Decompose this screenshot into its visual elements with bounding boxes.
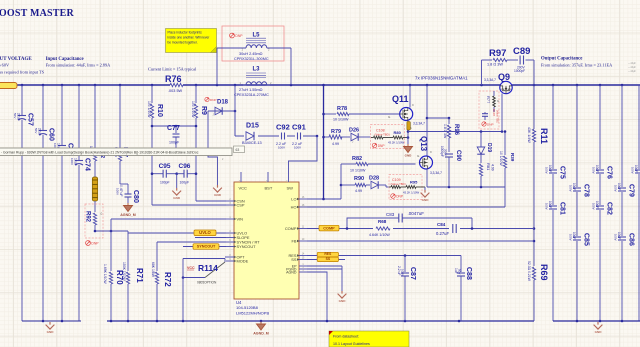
svg-text:R76: R76 — [165, 74, 182, 84]
transistor Q9 — [500, 81, 512, 93]
svg-text:30uH 2.45mΩ: 30uH 2.45mΩ — [239, 52, 263, 56]
svg-text:VCC: VCC — [239, 185, 248, 190]
svg-text:R92: R92 — [85, 211, 91, 223]
resistor R81 — [479, 164, 482, 176]
net label RES — [317, 252, 338, 256]
transistor Q13 — [426, 85, 428, 156]
svg-text:C74: C74 — [84, 158, 91, 171]
resistor R37 — [119, 85, 121, 148]
svg-text:CSP: CSP — [237, 203, 245, 208]
svg-text:68K 1/8W: 68K 1/8W — [151, 262, 155, 278]
svg-text:100V: 100V — [614, 234, 618, 241]
svg-text:DNP: DNP — [396, 194, 403, 198]
capacitor C89 — [519, 56, 521, 65]
svg-text:MODE: MODE — [237, 259, 249, 264]
svg-text:10 1/10W: 10 1/10W — [350, 169, 366, 173]
wire UVLO net — [128, 232, 226, 234]
inductor/fuse gold body — [94, 161, 96, 177]
wire SYNCIN/RT — [157, 241, 226, 243]
net label UVLO — [194, 230, 216, 236]
svg-text:8V to 60V: 8V to 60V — [0, 62, 10, 67]
resistor R11 — [533, 85, 535, 129]
svg-text:C81: C81 — [559, 202, 566, 215]
svg-text:50V: 50V — [34, 128, 38, 133]
net label SS — [317, 257, 338, 262]
svg-text:43K 1/4W: 43K 1/4W — [527, 127, 531, 143]
svg-text:.0047uF: .0047uF — [408, 211, 425, 216]
svg-text:R114: R114 — [198, 263, 218, 273]
svg-text:R81: R81 — [486, 163, 491, 171]
svg-text:AGND: AGND — [286, 271, 297, 275]
tooltip file path — [0, 148, 232, 156]
svg-text:10.1 Layout Guidelines: 10.1 Layout Guidelines — [333, 342, 370, 346]
ground right — [594, 322, 603, 329]
svg-text:GND: GND — [214, 193, 222, 197]
resistor R82 — [341, 163, 356, 165]
svg-text:R80: R80 — [394, 130, 402, 135]
svg-text:C89: C89 — [513, 46, 530, 57]
wire CSN — [196, 200, 226, 202]
svg-text:RES: RES — [324, 252, 332, 256]
svg-text:From datasheet:: From datasheet: — [333, 335, 359, 339]
svg-text:R97: R97 — [489, 48, 506, 59]
svg-text:SS: SS — [291, 257, 297, 262]
svg-text:4.99: 4.99 — [332, 142, 339, 146]
svg-text:SYNCOUT: SYNCOUT — [237, 244, 257, 249]
svg-text:100V: 100V — [70, 158, 74, 165]
resistor R39 — [504, 132, 506, 156]
svg-text:C83: C83 — [386, 212, 395, 217]
resistor R72 — [156, 242, 158, 271]
svg-text:C84: C84 — [437, 222, 446, 227]
wire main input/output rail — [0, 84, 500, 86]
svg-text:L5: L5 — [253, 33, 261, 39]
diode D15 — [244, 131, 258, 141]
svg-text:R71: R71 — [135, 268, 144, 283]
svg-text:C80: C80 — [132, 190, 139, 203]
svg-text:100V: 100V — [278, 146, 285, 150]
capacitor C76 — [595, 169, 605, 174]
resistor R10 — [151, 85, 153, 103]
svg-text:3,3,3A,7: 3,3,3A,7 — [484, 78, 496, 82]
wire FB — [307, 240, 534, 242]
svg-text:100 1/10W: 100 1/10W — [147, 101, 151, 118]
capacitor C88 — [460, 256, 462, 273]
svg-text:C91: C91 — [292, 123, 306, 132]
wire HO riser — [504, 187, 506, 207]
resistor R78 — [324, 113, 337, 115]
resistor R79 — [324, 136, 330, 138]
svg-text:50V: 50V — [458, 269, 462, 274]
resistor R71 — [127, 233, 129, 271]
resistor R68 — [373, 224, 393, 232]
resistor R97 snubber — [481, 60, 483, 85]
svg-text:INPUT VOLTAGE: INPUT VOLTAGE — [0, 57, 32, 62]
capacitor C83 branch — [347, 218, 399, 229]
svg-text:inside one another. Will never: inside one another. Will never — [168, 36, 211, 40]
svg-text:C82: C82 — [606, 202, 613, 215]
resistor R12 — [94, 85, 96, 148]
svg-text:HO: HO — [291, 205, 297, 210]
svg-text:100V: 100V — [569, 185, 573, 192]
ground D18 anode — [208, 111, 218, 185]
svg-text:7x IPF036N15NMGATMA1: 7x IPF036N15NMGATMA1 — [415, 76, 468, 81]
capacitor C108 / resistor R80 (DNP box) — [371, 125, 405, 149]
svg-text:100pF: 100pF — [160, 181, 170, 185]
svg-text:100V: 100V — [569, 234, 573, 241]
svg-text:C77: C77 — [167, 125, 180, 132]
svg-text:Current Limit = 15A typical: Current Limit = 15A typical — [148, 67, 197, 72]
capacitor C95 — [152, 173, 163, 175]
svg-text:150K 1/10W: 150K 1/10W — [122, 262, 126, 281]
resistor R69 — [532, 267, 535, 280]
svg-text:- Gorman Rupp - 600W 2NTG8 wit: - Gorman Rupp - 600W 2NTG8 with Load Dum… — [1, 151, 199, 155]
svg-text:C96: C96 — [179, 163, 191, 170]
svg-text:CPEX3231A-270MC: CPEX3231A-270MC — [234, 93, 269, 97]
svg-text:C75: C75 — [559, 166, 566, 179]
resistor R96 snubber — [427, 117, 449, 119]
wire D15 branch — [234, 85, 236, 136]
svg-text:SW: SW — [287, 185, 294, 190]
diode D28 — [366, 184, 370, 186]
wire SW node — [323, 85, 325, 199]
resistor R70 — [110, 231, 112, 271]
diode D19 — [480, 132, 482, 148]
svg-text:100V: 100V — [592, 167, 596, 174]
svg-text:R72: R72 — [163, 272, 172, 287]
svg-text:200V: 200V — [444, 149, 448, 156]
svg-text:D: D — [412, 103, 414, 107]
svg-text:AGND_M: AGND_M — [253, 332, 269, 336]
svg-text:1000pF: 1000pF — [514, 69, 525, 73]
svg-text:100V: 100V — [401, 269, 405, 276]
svg-text:0805OPTION: 0805OPTION — [197, 281, 217, 285]
svg-text:100V: 100V — [592, 203, 596, 210]
svg-text:43.2K 1/10W: 43.2K 1/10W — [388, 141, 405, 145]
capacitor C74 — [78, 85, 80, 161]
svg-text:4.64K 1/10W: 4.64K 1/10W — [369, 233, 390, 237]
wire gate riser — [340, 164, 342, 199]
svg-text:D28: D28 — [369, 176, 379, 182]
svg-text:R68: R68 — [378, 219, 387, 224]
svg-text:C95: C95 — [159, 163, 171, 170]
capacitor C96 — [177, 173, 184, 175]
net label SYNCOUT — [193, 244, 219, 250]
svg-text:GND: GND — [47, 330, 55, 334]
svg-text:C88: C88 — [465, 267, 472, 280]
port VIN (yellow) — [0, 83, 17, 89]
svg-text:R82: R82 — [352, 156, 362, 162]
svg-text:—10µF: —10µF — [628, 62, 636, 65]
svg-text:100pF: 100pF — [180, 181, 190, 185]
svg-text:C76: C76 — [606, 166, 613, 179]
svg-text:D26: D26 — [349, 128, 359, 134]
svg-text:R78: R78 — [337, 106, 347, 112]
svg-text:52.3Ω 0.21W: 52.3Ω 0.21W — [527, 261, 531, 282]
wire BST bootstrap — [316, 135, 319, 138]
capacitor C85 — [572, 236, 582, 241]
svg-text:3,3,3A,7: 3,3,3A,7 — [413, 122, 425, 126]
wire bottom right gnd rail — [553, 320, 640, 322]
capacitor C109 / resistor R95 (DNP box) — [389, 175, 422, 200]
capacitor C75 — [548, 169, 558, 174]
svg-text:100pF: 100pF — [169, 141, 180, 145]
svg-text:D19: D19 — [486, 143, 492, 152]
svg-text:BST: BST — [265, 185, 273, 190]
svg-text:GND: GND — [405, 154, 413, 158]
wire AGND pin to rail — [307, 272, 327, 321]
capacitor C60 — [42, 85, 44, 131]
svg-text:D: D — [430, 150, 432, 154]
wire L5 legs — [217, 47, 246, 49]
svg-text:B340CE-13: B340CE-13 — [242, 141, 262, 145]
svg-text:DNP: DNP — [91, 241, 99, 245]
wire SYNCOUT — [183, 246, 226, 248]
svg-text:GND: GND — [173, 196, 181, 200]
svg-text:2.2 uF: 2.2 uF — [397, 266, 401, 275]
svg-text:43.2K 1/10W: 43.2K 1/10W — [403, 191, 420, 195]
svg-text:(Value TBD): (Value TBD) — [391, 182, 406, 186]
capacitor C90 — [445, 153, 453, 155]
capacitor C81 — [548, 205, 558, 210]
svg-text:L3: L3 — [253, 67, 261, 73]
capacitor C92 — [279, 132, 287, 140]
svg-text:D18: D18 — [217, 100, 229, 106]
svg-text:C60: C60 — [48, 128, 55, 141]
wire R72 drop — [182, 259, 184, 322]
svg-text:GND: GND — [339, 299, 347, 303]
svg-text:1000pF: 1000pF — [440, 146, 444, 157]
svg-text:Q9: Q9 — [498, 72, 510, 82]
svg-text:3,3,3A,7: 3,3,3A,7 — [430, 171, 442, 175]
svg-text:.003 5W: .003 5W — [168, 89, 183, 93]
svg-text:63: 63 — [236, 148, 240, 152]
svg-text:COMP: COMP — [285, 226, 297, 231]
svg-text:—10µF: —10µF — [628, 70, 636, 73]
capacitor C91 — [295, 132, 303, 140]
svg-text:100V: 100V — [614, 185, 618, 192]
svg-text:DNP: DNP — [378, 144, 385, 148]
wire CSP — [152, 204, 226, 206]
svg-text:R79: R79 — [331, 129, 341, 135]
ground C95/C96 midpoint — [176, 174, 178, 188]
svg-text:R77: R77 — [486, 96, 491, 104]
capacitor C77 — [152, 125, 196, 127]
diode D18 (DNP) — [208, 110, 235, 112]
svg-text:104-5120B8: 104-5120B8 — [236, 305, 259, 310]
svg-text:C92: C92 — [276, 123, 290, 132]
svg-text:LM5122MH/NOPB: LM5122MH/NOPB — [236, 311, 269, 316]
svg-text:100V: 100V — [545, 203, 549, 210]
net label COMP — [319, 225, 339, 231]
svg-text:10 1/10W: 10 1/10W — [499, 151, 503, 166]
capacitor C7 — [634, 169, 640, 174]
svg-text:27uH 1.55mΩ: 27uH 1.55mΩ — [239, 88, 263, 92]
svg-text:0.27uF: 0.27uF — [436, 231, 449, 236]
svg-text:Q13: Q13 — [419, 136, 428, 152]
ground left — [46, 322, 55, 329]
svg-text:DNP: DNP — [487, 122, 493, 126]
wire SS — [307, 259, 345, 261]
wire R92 bottom — [95, 230, 128, 232]
op-amp U4 LM5122MH/NOPB — [234, 182, 299, 299]
svg-text:R10: R10 — [156, 104, 163, 117]
wire COMP — [307, 228, 534, 230]
svg-text:C78: C78 — [583, 184, 590, 197]
svg-text:VIN: VIN — [237, 217, 244, 222]
svg-text:100V: 100V — [631, 167, 635, 174]
svg-text:AGND_M: AGND_M — [120, 213, 136, 217]
svg-text:C57: C57 — [27, 113, 34, 126]
svg-text:Place inductor footprints: Place inductor footprints — [168, 31, 203, 35]
capacitor C87 — [404, 256, 406, 273]
svg-text:SS: SS — [326, 257, 331, 261]
svg-text:D15: D15 — [246, 123, 259, 130]
capacitor C57 — [21, 85, 23, 116]
resistor R76 — [170, 83, 183, 88]
svg-text:DNP: DNP — [210, 98, 216, 102]
capacitor C82 — [595, 205, 605, 210]
svg-text:SYNCOUT: SYNCOUT — [197, 245, 216, 249]
capacitor C80 — [120, 183, 128, 185]
wire LO — [307, 198, 341, 200]
power port AGND_M at C80 — [124, 203, 133, 212]
capacitor C78 — [572, 187, 582, 192]
note layout guidelines — [329, 331, 409, 347]
wire left gnd rail — [22, 320, 81, 322]
gold link on Q11 source — [407, 122, 410, 131]
wire q9 gate drive — [408, 131, 502, 133]
svg-text:FB: FB — [292, 239, 297, 244]
svg-text:BOOST MASTER: BOOST MASTER — [0, 8, 75, 19]
note place inductor footprints — [166, 29, 217, 53]
svg-text:R9: R9 — [200, 106, 207, 115]
svg-text:DNP: DNP — [235, 34, 243, 38]
svg-text:—10µF: —10µF — [628, 66, 636, 69]
svg-text:LO: LO — [291, 197, 296, 202]
svg-text:100 1/10W: 100 1/10W — [191, 101, 195, 118]
svg-text:GND: GND — [595, 330, 603, 334]
capacitor C64 — [61, 85, 63, 146]
svg-text:C79: C79 — [628, 184, 635, 197]
svg-text:4.99: 4.99 — [491, 164, 495, 171]
wire Q13 source — [427, 186, 505, 188]
svg-text:UVLO: UVLO — [199, 230, 211, 235]
svg-text:0: 0 — [101, 212, 103, 216]
capacitor C86 — [617, 236, 627, 241]
svg-text:100V: 100V — [116, 188, 120, 195]
svg-text:C90: C90 — [455, 150, 461, 162]
resistor R114 option jumper — [183, 258, 225, 260]
svg-text:C87: C87 — [409, 267, 416, 280]
svg-text:1uF: 1uF — [454, 268, 458, 274]
resistor R92 (DNP) — [94, 201, 96, 212]
resistor R9 — [195, 85, 197, 103]
svg-text:C86: C86 — [628, 233, 635, 246]
ground after R95 — [424, 187, 426, 190]
svg-text:Wide traces required from inpu: Wide traces required from input TS — [0, 70, 45, 75]
svg-text:1.69K 1/10W: 1.69K 1/10W — [103, 264, 107, 284]
svg-text:50V: 50V — [13, 113, 17, 118]
capacitor C107 / resistor R77 (DNP box) — [479, 91, 499, 129]
svg-text:Output Capacitance: Output Capacitance — [541, 57, 582, 62]
svg-text:10 1/10W: 10 1/10W — [333, 118, 349, 122]
svg-text:R90: R90 — [354, 176, 364, 182]
wire bottom analog ground rail — [107, 320, 534, 322]
wire VIN — [111, 218, 226, 220]
power port AGND_M — [257, 322, 266, 331]
svg-text:1.8 Ω 3W: 1.8 Ω 3W — [487, 63, 503, 67]
svg-text:R39: R39 — [510, 153, 515, 162]
svg-text:C85: C85 — [583, 233, 590, 246]
svg-text:COMP: COMP — [323, 226, 335, 230]
svg-text:VCC: VCC — [187, 266, 195, 270]
inductor L5 (DNP) — [222, 26, 284, 61]
svg-text:R95: R95 — [410, 180, 418, 185]
svg-text:100V: 100V — [294, 146, 301, 150]
wire HO — [307, 206, 505, 208]
capacitor C84 — [449, 223, 460, 233]
svg-text:100V: 100V — [545, 167, 549, 174]
svg-text:R96: R96 — [453, 124, 459, 136]
resistor R90 — [341, 184, 355, 186]
wire RES — [307, 255, 461, 257]
svg-text:R69: R69 — [539, 264, 549, 281]
capacitor C79 — [617, 187, 627, 192]
ground IC pins EP/PGND — [307, 265, 342, 267]
svg-text:be mounted together.: be mounted together. — [168, 41, 198, 45]
svg-text:GND: GND — [422, 198, 430, 202]
power port at Q11 source — [404, 144, 413, 153]
svg-text:R11: R11 — [539, 128, 549, 144]
wire SLOPE — [195, 237, 226, 239]
svg-text:4.99: 4.99 — [355, 189, 362, 193]
transistor Q11 — [409, 85, 411, 108]
svg-text:Q11: Q11 — [392, 94, 409, 104]
wire output cap columns — [552, 85, 554, 321]
svg-text:(Value TBD): (Value TBD) — [496, 110, 499, 123]
svg-text:C107: C107 — [492, 109, 496, 117]
svg-text:Input Capacitance: Input Capacitance — [46, 57, 84, 62]
svg-text:CPRX3231L-300MC: CPRX3231L-300MC — [234, 57, 269, 61]
diode D26 — [341, 136, 350, 138]
